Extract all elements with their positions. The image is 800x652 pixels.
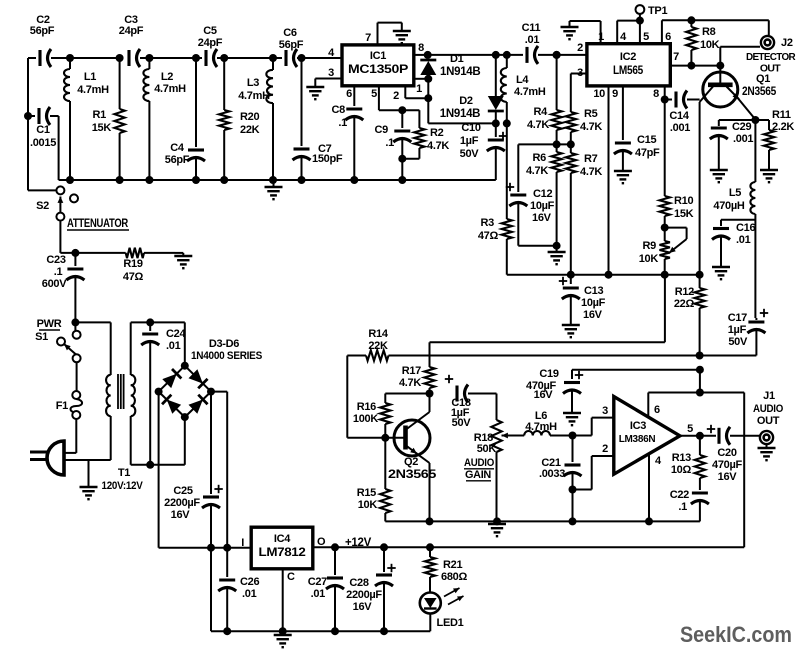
label D3-D6: [191, 338, 262, 362]
svg-text:.01: .01: [166, 340, 181, 352]
svg-text:50V: 50V: [452, 417, 472, 429]
wire: [140, 54, 202, 62]
resistor R7: [566, 144, 603, 274]
ground: [548, 246, 566, 265]
svg-text:L2: L2: [161, 71, 173, 83]
svg-text:R20: R20: [240, 111, 259, 123]
svg-text:C23: C23: [46, 254, 65, 266]
wire: [64, 460, 111, 487]
svg-text:R4: R4: [534, 106, 549, 118]
wire: [719, 116, 760, 182]
voltage regulator IC4 LM7812: [251, 527, 313, 569]
wire: [429, 614, 431, 632]
svg-text:10K: 10K: [639, 253, 659, 265]
pin 10 label: [593, 88, 605, 100]
ground: [265, 180, 283, 199]
svg-text:.01: .01: [736, 234, 751, 246]
wire: [64, 452, 76, 454]
wire: [617, 21, 640, 44]
svg-text:150pF: 150pF: [312, 153, 343, 165]
svg-text:15K: 15K: [674, 208, 694, 220]
capacitor C10: [460, 122, 508, 180]
svg-text:7: 7: [673, 51, 679, 63]
resistor R3: [478, 123, 512, 274]
capacitor C15: [614, 86, 660, 171]
capacitor C9: [375, 110, 412, 159]
wire: [754, 214, 756, 318]
svg-text:MC1350P: MC1350P: [348, 62, 408, 76]
svg-text:Q1: Q1: [756, 73, 770, 85]
svg-text:10: 10: [593, 88, 605, 100]
svg-text:680Ω: 680Ω: [441, 571, 467, 583]
pin 5 label: [371, 88, 377, 100]
transformer T1 core: [118, 374, 124, 409]
wire: [315, 79, 342, 88]
AC plug: [30, 441, 64, 475]
wire: [131, 318, 185, 375]
svg-text:S2: S2: [36, 200, 49, 212]
svg-text:50V: 50V: [728, 336, 748, 348]
capacitor C1: [24, 107, 59, 149]
svg-text:47Ω: 47Ω: [478, 230, 499, 242]
pin 2 label: [577, 42, 583, 54]
pin 6 label: [654, 404, 660, 416]
svg-text:5: 5: [687, 423, 693, 435]
wire: [27, 58, 29, 190]
pin 5 label: [643, 31, 649, 43]
svg-text:4.7mH: 4.7mH: [238, 90, 270, 102]
wire: [385, 517, 700, 525]
svg-text:24pF: 24pF: [119, 25, 144, 37]
svg-text:4.7K: 4.7K: [580, 166, 602, 178]
svg-text:R3: R3: [481, 217, 495, 229]
svg-text:PWR: PWR: [37, 318, 62, 330]
svg-text:R19: R19: [123, 258, 142, 270]
svg-text:2200µF: 2200µF: [164, 497, 200, 509]
svg-text:2N3565: 2N3565: [388, 469, 437, 481]
svg-text:IC3: IC3: [630, 420, 646, 432]
wire: [405, 79, 496, 124]
svg-text:I: I: [241, 537, 244, 549]
svg-text:D3-D6: D3-D6: [209, 338, 239, 350]
svg-text:LM7812: LM7812: [259, 547, 306, 559]
pin 8 label: [418, 42, 424, 54]
pin 4 label: [620, 31, 627, 43]
svg-text:1N914B: 1N914B: [440, 66, 480, 78]
ground: [710, 170, 728, 182]
svg-text:ATTENUATOR: ATTENUATOR: [67, 218, 129, 230]
ground: [563, 413, 581, 425]
pin 1 label: [416, 83, 422, 95]
resistor R17: [399, 342, 435, 397]
wire: [538, 51, 587, 59]
node: [569, 432, 577, 440]
svg-text:.1: .1: [385, 137, 394, 149]
svg-text:47Ω: 47Ω: [123, 271, 144, 283]
svg-text:.1: .1: [678, 501, 687, 513]
wire: [211, 392, 227, 548]
svg-text:LM565: LM565: [613, 63, 644, 77]
wire: [680, 432, 716, 440]
resistor R20: [219, 58, 260, 180]
pin 7 label: [365, 32, 371, 44]
wire: [347, 356, 389, 442]
svg-text:56pF: 56pF: [30, 25, 55, 37]
svg-text:R12: R12: [675, 286, 694, 298]
diode bridge D5: [159, 392, 185, 418]
svg-text:9: 9: [612, 88, 618, 100]
wire: [75, 322, 110, 375]
capacitor C23: [42, 253, 85, 323]
wire: [507, 271, 704, 279]
wire: [297, 54, 342, 62]
svg-text:L4: L4: [516, 74, 529, 86]
svg-text:3: 3: [328, 67, 334, 79]
switch S2: [28, 186, 78, 220]
pin 3 label: [577, 67, 583, 79]
svg-text:1N914B: 1N914B: [440, 108, 480, 120]
capacitor C24: [141, 322, 186, 464]
svg-text:24pF: 24pF: [198, 37, 223, 49]
svg-text:3: 3: [602, 405, 608, 417]
inductor L1: [64, 58, 109, 180]
svg-text:C25: C25: [173, 485, 192, 497]
svg-text:2200µF: 2200µF: [346, 589, 382, 601]
svg-text:GAIN: GAIN: [465, 469, 491, 481]
svg-text:C9: C9: [375, 124, 389, 136]
capacitor C21: [539, 436, 582, 522]
wire: [159, 392, 252, 548]
svg-text:R17: R17: [402, 365, 421, 377]
capacitor C6: [279, 27, 304, 67]
svg-text:C4: C4: [170, 142, 185, 154]
svg-text:56pF: 56pF: [165, 154, 190, 166]
svg-text:4.7mH: 4.7mH: [154, 83, 186, 95]
svg-text:C16: C16: [736, 222, 755, 234]
transformer T1 secondary: [131, 375, 136, 416]
svg-text:IC4: IC4: [274, 533, 291, 545]
svg-text:C17: C17: [728, 312, 747, 324]
label ATTENUATOR: [67, 218, 129, 230]
svg-text:4.7K: 4.7K: [527, 119, 549, 131]
svg-text:1: 1: [416, 83, 422, 95]
pin 3 label: [602, 405, 608, 417]
svg-text:4.7mH: 4.7mH: [77, 84, 109, 96]
svg-text:R5: R5: [584, 108, 598, 120]
svg-text:.001: .001: [670, 122, 690, 134]
svg-text:R16: R16: [357, 401, 376, 413]
svg-text:1µF: 1µF: [728, 324, 747, 336]
svg-text:56pF: 56pF: [279, 39, 304, 51]
wire: [573, 456, 614, 490]
svg-text:C28: C28: [349, 577, 368, 589]
inductor L4: [501, 55, 546, 124]
capacitor C22: [670, 489, 709, 521]
capacitor C27: [308, 547, 344, 631]
svg-text:16V: 16V: [534, 389, 554, 401]
svg-text:AUDIO: AUDIO: [464, 457, 495, 469]
wire: [282, 569, 284, 631]
svg-text:L3: L3: [247, 77, 259, 89]
transistor Q2 2N3565: [385, 394, 437, 522]
svg-text:R21: R21: [443, 559, 462, 571]
resistor R19: [123, 248, 175, 283]
ground: [562, 325, 580, 337]
svg-text:22Ω: 22Ω: [674, 298, 695, 310]
svg-text:C14: C14: [669, 110, 689, 122]
capacitor C7: [293, 58, 343, 180]
svg-text:Q2: Q2: [404, 456, 418, 468]
svg-text:7: 7: [365, 32, 371, 44]
resistor R12: [674, 275, 705, 356]
capacitor C18: [445, 375, 497, 429]
resistor R4: [527, 51, 562, 144]
svg-text:C13: C13: [584, 285, 603, 297]
test point TP1: [636, 5, 668, 21]
wire: [518, 140, 575, 148]
IC IC2 LM565: [587, 44, 670, 86]
svg-text:C26: C26: [240, 576, 259, 588]
svg-text:C11: C11: [522, 22, 541, 34]
wire: [743, 393, 745, 548]
svg-text:R14: R14: [368, 328, 388, 340]
label PWR: [37, 318, 62, 330]
wire: [51, 54, 120, 62]
svg-text:IC1: IC1: [370, 50, 386, 62]
wire: [636, 17, 644, 44]
wire: [28, 57, 36, 59]
svg-text:.1: .1: [54, 266, 63, 278]
resistor R6: [526, 144, 562, 249]
svg-text:1µF: 1µF: [460, 135, 479, 147]
wire: [58, 116, 60, 180]
resistor R1: [92, 54, 125, 180]
pin 1 label: [598, 31, 604, 43]
svg-text:120V:12V: 120V:12V: [102, 480, 144, 492]
svg-text:J1: J1: [763, 390, 775, 402]
svg-text:R13: R13: [672, 452, 691, 464]
pin 4 label: [328, 47, 335, 59]
pin 2 label: [393, 90, 399, 102]
pin 8 label: [653, 88, 659, 100]
svg-text:15K: 15K: [92, 122, 112, 134]
wire: [661, 86, 669, 104]
pin 4 label: [655, 455, 662, 467]
inductor L5: [713, 182, 755, 214]
svg-text:AUDIO: AUDIO: [753, 403, 784, 415]
svg-text:2.2K: 2.2K: [772, 121, 794, 133]
svg-text:16V: 16V: [171, 509, 191, 521]
wire: [217, 54, 282, 62]
capacitor C12: [506, 144, 557, 245]
transistor Q1 2N3565: [700, 66, 777, 275]
ground: [80, 487, 98, 499]
svg-text:10µF: 10µF: [530, 200, 555, 212]
svg-text:OUT: OUT: [760, 63, 781, 75]
svg-text:L1: L1: [84, 71, 96, 83]
svg-text:16V: 16V: [532, 212, 552, 224]
svg-text:50V: 50V: [460, 148, 480, 160]
wire: [648, 455, 650, 522]
ground: [760, 170, 778, 182]
ground: [561, 27, 579, 39]
wire: [59, 176, 496, 184]
capacitor C14: [665, 91, 700, 135]
node: [492, 119, 511, 127]
diode D2 1N914B: [440, 55, 504, 124]
svg-text:TP1: TP1: [648, 5, 667, 17]
wire: [428, 51, 523, 59]
svg-text:4.7K: 4.7K: [399, 377, 421, 389]
svg-text:2: 2: [602, 443, 608, 455]
svg-text:R7: R7: [584, 153, 598, 165]
diode bridge D6: [185, 392, 211, 418]
wire: [131, 416, 185, 469]
op-amp IC3 LM386N: [614, 397, 680, 475]
svg-text:OUT: OUT: [757, 415, 780, 427]
diode bridge D4: [185, 366, 211, 392]
capacitor C2: [30, 14, 55, 67]
capacitor C26: [218, 548, 259, 632]
svg-text:5: 5: [643, 31, 649, 43]
pin C label: [287, 571, 295, 583]
capacitor C8: [332, 86, 364, 180]
svg-text:2N3565: 2N3565: [742, 86, 777, 98]
svg-text:C12: C12: [533, 188, 552, 200]
capacitor C28: [346, 547, 396, 631]
svg-text:C: C: [287, 571, 295, 583]
svg-text:16V: 16V: [583, 309, 603, 321]
svg-text:C27: C27: [308, 576, 327, 588]
pin 5 label: [687, 423, 693, 435]
svg-text:50K: 50K: [477, 443, 497, 455]
diode bridge D3: [159, 366, 185, 392]
svg-text:R8: R8: [702, 26, 716, 38]
svg-text:O: O: [317, 536, 326, 548]
svg-text:C15: C15: [637, 134, 656, 146]
wire: [572, 366, 704, 393]
wire: [385, 393, 429, 395]
wire: [389, 352, 757, 360]
switch S1: [35, 318, 80, 362]
resistor R10: [660, 100, 694, 232]
svg-text:10µF: 10µF: [581, 297, 606, 309]
resistor R13: [671, 436, 705, 490]
pin O label: [317, 536, 326, 548]
svg-text:R9: R9: [643, 240, 657, 252]
svg-text:100K: 100K: [353, 413, 378, 425]
svg-text:SeekIC.com: SeekIC.com: [680, 622, 792, 647]
capacitor C29: [710, 120, 754, 170]
svg-text:R10: R10: [674, 195, 693, 207]
svg-text:IC2: IC2: [620, 51, 636, 63]
svg-text:10K: 10K: [700, 39, 720, 51]
pin 9 label: [612, 88, 618, 100]
ground: [174, 253, 192, 268]
wire: [184, 322, 186, 365]
svg-text:C8: C8: [332, 104, 346, 116]
svg-text:C1: C1: [36, 124, 50, 136]
svg-text:10Ω: 10Ω: [671, 464, 692, 476]
svg-text:F1: F1: [56, 400, 68, 412]
svg-text:DETECTOR: DETECTOR: [746, 51, 796, 63]
svg-text:.01: .01: [242, 588, 257, 600]
svg-text:C22: C22: [670, 489, 689, 501]
LED LED1: [420, 588, 464, 629]
wire: [110, 416, 112, 460]
capacitor C19: [526, 368, 583, 413]
svg-text:S1: S1: [35, 331, 48, 343]
wire: [430, 275, 665, 343]
wire: [648, 389, 744, 418]
ground: [274, 631, 292, 647]
svg-text:C20: C20: [717, 447, 736, 459]
resistor R11: [755, 109, 794, 170]
node: [207, 544, 231, 552]
svg-text:2: 2: [393, 90, 399, 102]
svg-text:+12V: +12V: [345, 537, 372, 549]
ground: [306, 87, 324, 99]
svg-text:LM386N: LM386N: [619, 434, 656, 445]
capacitor C17: [728, 309, 768, 356]
svg-text:L5: L5: [729, 187, 741, 199]
svg-text:5: 5: [371, 88, 377, 100]
pin 6 label: [665, 31, 671, 43]
connector J2: [746, 36, 796, 75]
pin 7 label: [673, 51, 679, 63]
diode D1 1N914B: [420, 53, 480, 79]
svg-text:R6: R6: [533, 152, 547, 164]
wire: [608, 86, 610, 275]
capacitor C25: [164, 392, 223, 548]
svg-text:.1: .1: [338, 117, 347, 129]
IC IC1 MC1350P: [342, 45, 414, 86]
svg-text:R15: R15: [357, 487, 376, 499]
svg-text:4.7mH: 4.7mH: [525, 421, 557, 433]
ground: [393, 31, 411, 43]
wire: [379, 86, 420, 114]
capacitor C5: [198, 25, 223, 67]
resistor R8: [686, 20, 719, 65]
inductor L6: [524, 410, 572, 436]
svg-text:22K: 22K: [368, 340, 388, 352]
wire: [573, 418, 614, 436]
svg-text:J2: J2: [781, 37, 793, 49]
svg-text:8: 8: [418, 42, 424, 54]
svg-text:.001: .001: [733, 133, 753, 145]
capacitor C20: [707, 425, 760, 483]
pin I label: [241, 537, 244, 549]
svg-text:16V: 16V: [353, 601, 373, 613]
ground: [614, 171, 632, 183]
resistor R2: [398, 110, 449, 180]
svg-text:4.7K: 4.7K: [427, 140, 449, 152]
wire: [313, 543, 744, 551]
inductor L3: [238, 58, 273, 180]
svg-text:T1: T1: [118, 467, 130, 479]
svg-text:C24: C24: [166, 328, 186, 340]
svg-text:4.7mH: 4.7mH: [514, 86, 546, 98]
wire: [570, 21, 601, 44]
ground: [712, 267, 730, 279]
svg-text:.0015: .0015: [30, 137, 56, 149]
ground: [488, 521, 506, 536]
label T1: [102, 467, 144, 492]
svg-text:470µH: 470µH: [713, 200, 744, 212]
node: [155, 362, 215, 421]
connector J1: [753, 390, 784, 460]
capacitor C3: [119, 14, 144, 67]
